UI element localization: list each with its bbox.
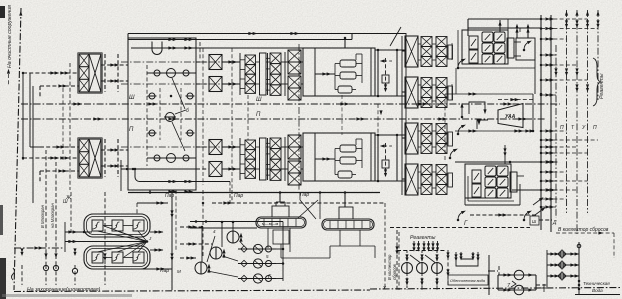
ion-exchange bank FA (column of 4) <box>222 53 266 95</box>
svg-text:Пар: Пар <box>234 193 243 199</box>
svg-text:Ш: Ш <box>63 199 68 205</box>
manifold bottom outlet elbow <box>135 169 230 203</box>
svg-text:П: П <box>129 127 134 133</box>
left boundary dash-dot line (skewed) <box>14 8 22 290</box>
svg-text:Техническая: Техническая <box>583 281 610 286</box>
ejector train row2 <box>223 254 277 268</box>
ion-exchange bank FB (column of 4) <box>266 53 288 95</box>
svg-text:Обессоленная вода: Обессоленная вода <box>450 279 485 283</box>
valve row 2 <box>148 93 195 99</box>
bus junction dots <box>550 18 552 208</box>
UAA routing hooks <box>445 94 534 133</box>
mech filter frame row1 (racetrack) <box>84 214 150 237</box>
valve manifold box <box>128 38 196 190</box>
mech filter frame row2 (racetrack) <box>84 246 150 269</box>
check arrows near discharge <box>533 197 546 215</box>
scan edge artifacts <box>0 6 132 299</box>
cluster M2 frame <box>455 145 558 217</box>
feed pipe to block G1 <box>22 156 79 182</box>
feed lines from steam bus <box>180 220 283 259</box>
pipes block G1 to manifold <box>101 139 128 177</box>
svg-text:Пар: Пар <box>160 268 169 274</box>
ejector train row1 <box>238 241 276 254</box>
label: v kollektor sbrosov (right) <box>556 227 614 258</box>
svg-text:В коллектор сбросов: В коллектор сбросов <box>558 227 609 233</box>
mixed-bed cluster M2 <box>465 164 524 198</box>
valve row 5 <box>147 154 196 163</box>
cluster M1 frame + risers <box>458 20 535 68</box>
transfer pumps unit 7 <box>488 266 547 295</box>
stream numerals <box>560 125 597 131</box>
reagent vertical lines <box>556 10 600 234</box>
drain lines to left (Mazokhran) <box>40 150 68 265</box>
manifold internal verticals <box>147 48 196 185</box>
unit UAA (trapezoid) <box>498 104 523 128</box>
svg-text:На захоронение(шлакоотвал): На захоронение(шлакоотвал) <box>27 287 101 293</box>
svg-text:Ш: Ш <box>129 95 135 101</box>
pump trio <box>195 221 243 274</box>
ion-exchange bank GB (column of 4) <box>266 138 288 180</box>
left exit line y248 <box>12 246 65 280</box>
group outlet lines to bus <box>445 92 542 132</box>
svg-text:на Мазохран: на Мазохран <box>50 203 55 228</box>
top-right feed lines y19/y28 <box>468 19 541 36</box>
filter bank GC (column of 4 large) <box>285 135 303 185</box>
ejector collector right <box>268 222 284 282</box>
filter unit feed lines <box>65 195 147 243</box>
manifold through lines ch1 <box>121 62 240 84</box>
separator line II (dash-dot) <box>21 112 545 133</box>
dosing pumps <box>402 251 443 291</box>
filter group R1 (tall + 2 cols x3) <box>402 36 453 67</box>
right vertical bus pair <box>541 15 551 232</box>
svg-text:П: П <box>593 125 597 131</box>
svg-text:П: П <box>560 125 564 131</box>
filter block F1 (left, with X cells) <box>78 53 102 93</box>
channel2 to bottom risers <box>300 193 320 220</box>
hook pipe top <box>128 34 162 61</box>
valve row 4 <box>148 122 195 151</box>
svg-text:Д: Д <box>552 220 557 226</box>
label: Na zakhoronenie (bottom-left) <box>27 287 101 293</box>
manifold through line ch2-b <box>121 160 196 193</box>
reagent dosing set <box>395 230 445 290</box>
riser frame after box G <box>375 134 406 183</box>
separator line III (dash-dot) <box>21 95 560 106</box>
tech water manifold <box>540 242 620 295</box>
deaerator 2 <box>322 193 374 231</box>
label: Na ochistnye sooruzheniya (left rotated) <box>7 5 13 86</box>
cross pipes between deaerators <box>298 200 318 219</box>
filter unit outlets right <box>137 201 172 270</box>
svg-text:На очистные сооружения: На очистные сооружения <box>7 5 13 68</box>
top pipe lower to box D <box>131 42 303 60</box>
ejector train row3 <box>208 271 277 283</box>
svg-text:Реагенты: Реагенты <box>599 73 605 99</box>
svg-text:Вода: Вода <box>592 288 603 293</box>
mixed-bed cluster M1 <box>462 30 521 64</box>
fan collector lines <box>97 226 152 257</box>
riser box D ch1 to header <box>344 37 347 48</box>
demin water unit <box>446 250 489 295</box>
mech filter boxes row2 (S-marks) <box>92 252 144 263</box>
pipes block F1 to manifold <box>101 54 128 92</box>
svg-text:Реагенты: Реагенты <box>410 235 436 241</box>
top pipe B (y39.5) <box>128 34 352 42</box>
top pipe A (y33.5) <box>128 32 406 35</box>
discharge dashed line I <box>390 216 557 228</box>
svg-text:П: П <box>256 112 261 118</box>
deaerator drains <box>268 228 375 258</box>
process box GD with ladder internals <box>303 133 375 181</box>
valve mid with diagonal <box>164 78 189 122</box>
header dots <box>149 191 347 194</box>
svg-text:М: М <box>177 269 181 274</box>
filter group R3 (tall + 2 cols x3) <box>402 123 453 154</box>
process box FD with ladder internals <box>303 48 375 96</box>
reagent line flow marks <box>554 20 599 92</box>
thyristor hooks mid-right <box>449 41 532 222</box>
filter bank FC (column of 4 large) <box>285 50 303 100</box>
long header above deaerators <box>128 190 380 193</box>
mech filter boxes row1 (S-marks) <box>92 220 144 231</box>
svg-text:Пар: Пар <box>165 193 174 199</box>
ion-exchange bank GA (column of 4) <box>222 138 266 180</box>
svg-text:Ш: Ш <box>256 97 262 103</box>
reagent brace + label <box>593 58 605 106</box>
filter group R2 (tall + 2 cols x3) <box>402 77 453 108</box>
right horizontal connectors <box>540 17 598 208</box>
kollektor sbrosov rotated label <box>387 232 399 290</box>
web lines center <box>203 44 383 190</box>
web lines right-mid <box>445 68 533 162</box>
svg-text:м—м—м: м—м—м <box>262 221 279 226</box>
manifold through lines ch2 <box>121 146 240 148</box>
svg-text:УАА: УАА <box>505 114 516 120</box>
svg-text:б: б <box>186 108 189 114</box>
svg-text:сбросов: сбросов <box>392 263 397 280</box>
web lines left area <box>23 63 79 203</box>
drain stubs bottom <box>20 192 106 285</box>
filter group R4 (tall + 2 cols x3) <box>402 164 453 195</box>
callout slash <box>390 27 401 46</box>
deaerator 1 <box>256 193 306 229</box>
feed pipe to block F1 <box>22 71 79 97</box>
M1 side box <box>516 38 535 94</box>
filter block G1 (left, with X cells) <box>78 138 102 178</box>
bottom boundary dash-dot line <box>14 286 621 292</box>
steam bus vertical <box>160 190 309 290</box>
filter unit left risers <box>65 192 71 252</box>
valve row 1 <box>147 69 196 78</box>
riser frame after box F <box>375 49 406 98</box>
link risers between groups <box>402 33 452 195</box>
x-box pair F (column x210) <box>196 55 238 92</box>
dashed service line above vessels <box>202 190 385 288</box>
svg-text:В Мазохран: В Мазохран <box>40 204 45 228</box>
x-box pair G (column x210) <box>196 140 238 177</box>
